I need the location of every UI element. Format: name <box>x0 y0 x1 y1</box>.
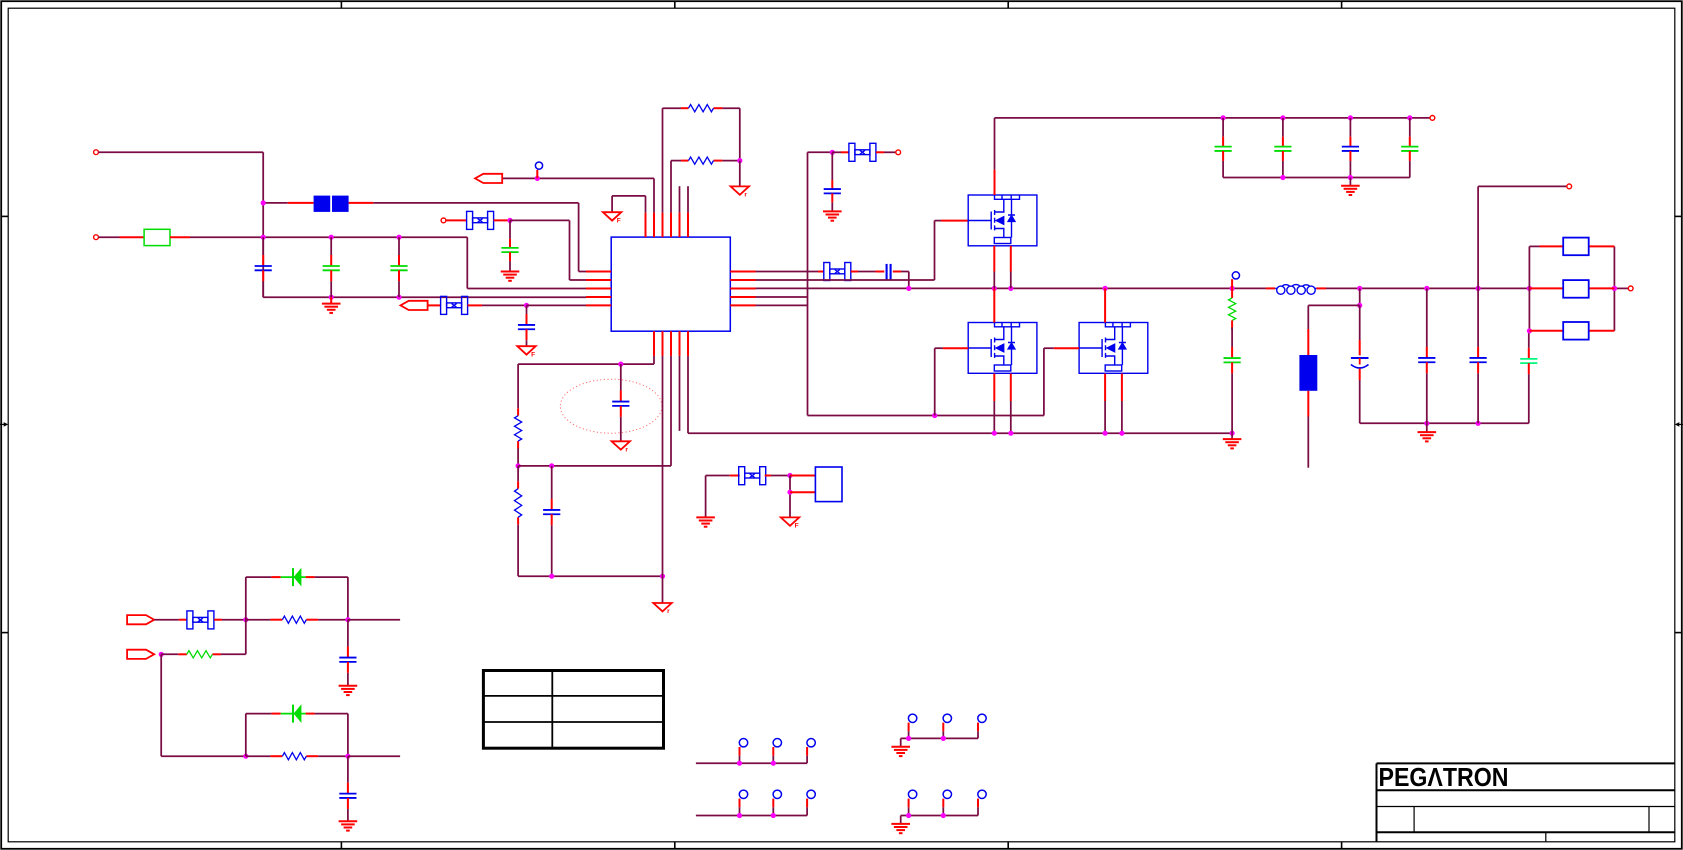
wire P2 to FB3 <box>428 304 441 306</box>
ground under C4 <box>501 272 520 281</box>
wire net PGND bus <box>688 431 1235 436</box>
IC U2 <box>815 467 842 502</box>
ground under JP3 <box>891 747 910 756</box>
svg-text:F: F <box>617 217 621 224</box>
wire R6 row <box>246 617 400 622</box>
wire net VIN_A <box>99 152 264 297</box>
port J4 circle <box>1430 116 1435 121</box>
resistor RN3 <box>1563 322 1589 340</box>
capacitor C18 <box>1520 331 1537 424</box>
capacitor C1 <box>255 237 272 297</box>
capacitor C16 <box>1418 288 1435 423</box>
capacitor C20 <box>339 756 356 821</box>
wire R8 row <box>246 754 400 759</box>
port P5 arrow <box>127 615 154 624</box>
ground under JP4 <box>891 824 910 833</box>
ground under C19 <box>339 686 358 695</box>
wire FB4 to C6 <box>851 271 885 273</box>
ground under C20 <box>339 821 358 830</box>
IC U1 <box>611 237 730 331</box>
port P6 arrow <box>127 650 154 659</box>
wire FB5 to P4 <box>876 151 896 153</box>
wire gate bus LGATE <box>808 348 1080 418</box>
wire FB6 left leg <box>706 476 740 517</box>
wire net VIN rail <box>170 235 586 289</box>
capacitor C19 <box>339 620 356 686</box>
wire RN3 row <box>1529 330 1614 332</box>
diode D2 <box>281 704 306 723</box>
wire pin3T loop <box>663 108 740 212</box>
ferrite bead FB7 <box>187 611 214 629</box>
ground r under R2 <box>731 186 749 198</box>
port P1 circle <box>441 218 446 223</box>
wire J2 to fuse <box>99 236 145 238</box>
capacitor C9 <box>1274 118 1291 178</box>
wire D2 row <box>246 714 348 757</box>
resistor R4 <box>515 489 522 518</box>
wire net EN (pin2T) <box>502 170 654 213</box>
ferrite bead FB1 (filled) <box>314 196 349 212</box>
ground r under C12 <box>612 441 630 453</box>
capacitor C3 <box>390 237 407 297</box>
transistor Q2 <box>968 323 1037 374</box>
resistor R7 <box>187 651 213 658</box>
wire net VIN12 top rail <box>995 115 1430 120</box>
net tie circle N2 <box>1232 272 1239 279</box>
port P4 circle <box>896 150 901 155</box>
wire Q3 drain <box>1104 288 1106 322</box>
resistor R1 <box>689 105 714 112</box>
ferrite bead FB3 <box>441 296 468 314</box>
port P3 arrow <box>475 174 502 183</box>
wire vertical bus x807 <box>807 152 809 415</box>
port J1 circle <box>94 150 99 155</box>
wire FB2 to U1 pin2L <box>494 218 586 280</box>
ferrite bead FB2 <box>467 211 494 229</box>
port J3 circle <box>1628 286 1633 291</box>
diode D1 <box>281 568 306 587</box>
IC U1 pins <box>586 213 756 356</box>
wire boot net pin1R <box>756 271 824 273</box>
wire C6 to SW rail <box>893 272 909 289</box>
wire D1 row <box>246 577 348 620</box>
svg-text:F: F <box>795 523 799 530</box>
wire bead FB1 row <box>261 200 586 271</box>
wire P1 to FB2 <box>446 219 467 221</box>
header JP4 <box>901 790 987 823</box>
wire RS1 lower stub <box>1307 391 1309 468</box>
wire N2 stub <box>1231 279 1233 288</box>
capacitor C17 <box>1470 288 1487 423</box>
ground under cap bank <box>1341 178 1360 196</box>
capacitor C5 <box>518 305 535 345</box>
wire node B vertical <box>245 714 247 757</box>
capacitor C7 <box>824 152 841 211</box>
fuse F1 <box>144 229 170 245</box>
resistor R8 <box>282 753 306 760</box>
ground under C2 <box>322 297 341 313</box>
wire stub pin6T <box>687 186 689 212</box>
capacitor C6 (series) <box>887 264 891 281</box>
ground F under C5 <box>517 346 535 358</box>
resistor RS1 (filled) <box>1299 355 1317 391</box>
wire FB3 to U1 pin5L <box>468 303 586 308</box>
resistor R3 <box>515 416 522 441</box>
resistor R5 <box>1229 288 1236 330</box>
wire SW to L1 red stubs <box>1266 287 1326 289</box>
wire pin4T loop <box>671 158 742 213</box>
ground under C14 <box>1223 433 1242 448</box>
capacitor C15 (polarized) <box>1351 305 1369 423</box>
port J2 circle <box>94 235 99 240</box>
header JP3 <box>901 714 987 746</box>
highlight ellipse <box>560 379 662 433</box>
wire sense branch <box>1308 288 1362 355</box>
wire stub pin4B <box>679 356 681 431</box>
capacitor C2 <box>323 237 340 297</box>
wire FB6 to U2 <box>765 473 816 517</box>
svg-text:PEGΛTRON: PEGΛTRON <box>1379 764 1509 792</box>
wire P6 down leg <box>161 654 248 759</box>
wire RN1 row <box>1529 245 1614 247</box>
wire res bank right <box>1612 246 1617 330</box>
wire cap bank bottom rail <box>1223 175 1410 180</box>
ground under C16 <box>1418 423 1437 441</box>
net tie circle N1 <box>535 162 542 169</box>
wire feedback tap <box>1478 186 1567 288</box>
wire Q2 source pins <box>994 374 1011 434</box>
wire Q3 source pins <box>1105 374 1122 434</box>
wire P6 node <box>159 652 246 657</box>
capacitor C8 <box>1215 118 1232 178</box>
svg-text:F: F <box>531 351 535 358</box>
wire output gnd rail <box>1360 421 1529 426</box>
ground under FB6 leg <box>696 517 715 526</box>
wire Q2 drain <box>993 288 995 322</box>
capacitor C13 <box>543 466 560 576</box>
wire bottom return row <box>518 356 665 603</box>
wire pin5R <box>756 304 808 306</box>
header JP1 <box>696 739 815 766</box>
wire stub pin5T <box>679 186 681 212</box>
ground F left of U1 <box>603 212 621 224</box>
resistor R2 <box>689 157 714 164</box>
wire Q1 drain to VIN12 rail <box>994 118 996 195</box>
port P2 arrow <box>401 301 428 310</box>
wire bus to FB5 <box>808 150 850 155</box>
header JP2 <box>696 790 815 818</box>
ferrite bead FB6 <box>739 467 766 485</box>
transistor Q3 <box>1079 323 1148 374</box>
wire net SW rail <box>756 286 1629 291</box>
resistor R6 <box>282 616 306 623</box>
wire node A vertical <box>245 577 247 654</box>
wire pin1T to ground F <box>612 196 645 213</box>
wire pin1B net <box>518 356 654 367</box>
capacitor C10 <box>1342 118 1359 178</box>
resistor RN1 <box>1563 238 1589 256</box>
ground under C7 <box>823 211 842 220</box>
capacitor C11 <box>1401 118 1418 178</box>
wire res bank left <box>1527 246 1532 333</box>
wire pin5B to PGND <box>687 356 689 433</box>
ferrite bead FB5 <box>849 143 876 161</box>
ground under pin2B <box>653 603 671 615</box>
wire gate Q1 (pin2R) <box>756 221 969 280</box>
ferrite bead FB4 <box>824 263 851 281</box>
wire divider left leg <box>516 364 521 576</box>
port J5 circle <box>1567 184 1572 189</box>
ground F under U2 <box>781 517 799 529</box>
transistor Q1 <box>968 195 1037 246</box>
wire RN2 row <box>1529 287 1614 289</box>
capacitor C14 <box>1224 328 1241 434</box>
capacitor C12 <box>612 364 629 441</box>
wire FB sense row <box>518 356 671 469</box>
wire P5 to FB7 <box>154 619 186 621</box>
sheet title block <box>1377 763 1675 841</box>
inductor L1 <box>1275 285 1316 295</box>
resistor RN2 <box>1563 280 1589 298</box>
capacitor C4 <box>501 220 518 270</box>
wire pin4R <box>756 296 808 298</box>
wire net GND bottom rail <box>263 295 586 300</box>
wire FB7 to node A <box>214 617 248 622</box>
revision table <box>483 671 663 749</box>
wire Q1 source pins <box>994 246 1011 289</box>
